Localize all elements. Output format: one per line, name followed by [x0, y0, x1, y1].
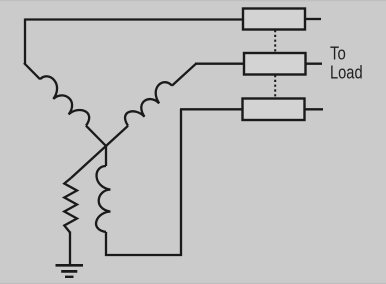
wire: resistor to ground [69, 232, 71, 266]
wire: vertical stub below node X [105, 145, 107, 166]
inductor L3 (center winding, 3 loops, bulging left) [96, 166, 110, 232]
inductor L2 (right phase winding, 3 loops) [125, 82, 172, 126]
dotted gang link between S2 and S3 [274, 75, 276, 98]
wire: left diagonal from coil to node X [86, 126, 106, 146]
wire: vertical below center coil to bottom run [105, 232, 107, 256]
svg-text:Load: Load [330, 63, 363, 83]
scan edge artifact bottom [0, 283, 386, 284]
wire: right vertical riser to bottom switch wire [180, 109, 182, 256]
wire: top switch right stub [305, 18, 321, 20]
wire: into bottom switch [180, 108, 243, 110]
ground symbol [56, 265, 84, 277]
switch/fuse box S2 (middle) [244, 53, 306, 75]
inductor L1 (left phase winding, 3 loops) [40, 76, 89, 125]
wire: middle switch right stub [306, 63, 323, 65]
wire: top horizontal from left corner to top switch [25, 18, 243, 20]
wire: left diagonal lead into coil [24, 63, 40, 79]
resistor R1 (grounding resistor) [64, 178, 77, 233]
wire: bottom horizontal run [105, 254, 182, 256]
switch/fuse box S3 (bottom) [243, 99, 305, 121]
dotted gang link between S1 and S2 [274, 30, 276, 53]
wire: right diagonal lead from middle wire corner into coil [172, 64, 196, 86]
wire: middle switch left lead [195, 63, 244, 65]
scan edge artifact top [0, 0, 386, 1]
switch/fuse box S1 (top) [243, 9, 305, 30]
wire: bottom switch right stub [305, 108, 324, 110]
wire: left vertical drop [24, 19, 26, 65]
svg-text:To: To [330, 44, 346, 64]
wire: right diagonal from coil through node X to resistor top [71, 126, 128, 178]
